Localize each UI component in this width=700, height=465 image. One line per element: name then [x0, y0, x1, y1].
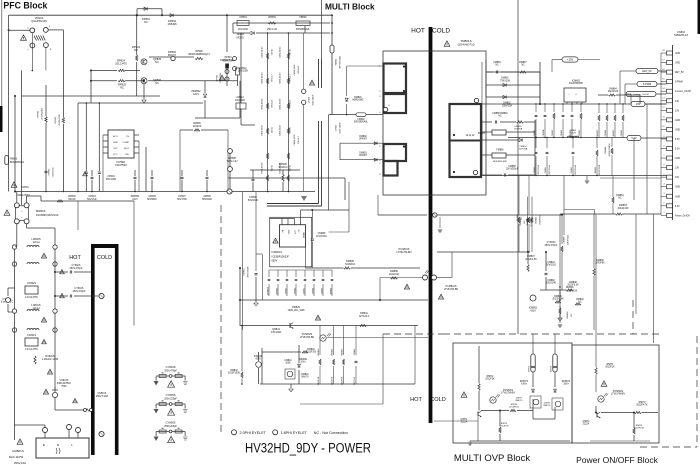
svg-text:2012U0: 2012U0 [193, 125, 202, 128]
svg-text:HER20MG: HER20MG [352, 100, 363, 102]
svg-text:50V1K: 50V1K [68, 198, 76, 201]
svg-text:CM860: CM860 [534, 129, 536, 136]
svg-text:3: 3 [663, 193, 664, 195]
svg-text:2012F1.5K: 2012F1.5K [525, 258, 537, 261]
svg-text:2012F470K: 2012F470K [59, 114, 61, 126]
svg-text:UF4007: UF4007 [359, 139, 368, 141]
svg-text:GND: GND [675, 158, 680, 160]
svg-text:T5KV20A: T5KV20A [500, 79, 510, 82]
svg-text:10V1000uF: 10V1000uF [575, 164, 577, 175]
svg-text:PCS802S: PCS802S [613, 391, 624, 393]
svg-text:6: 6 [663, 164, 664, 166]
svg-text:2012F100: 2012F100 [618, 207, 629, 210]
svg-text:2012F1.8K: 2012F1.8K [552, 299, 564, 301]
svg-text:#AL: #AL [177, 371, 180, 374]
svg-text:DM(L)/D.05: DM(L)/D.05 [262, 98, 264, 110]
svg-text:6.8Vz: 6.8Vz [521, 384, 528, 386]
svg-text:CM866: CM866 [621, 129, 623, 136]
svg-text:12: 12 [662, 107, 664, 109]
svg-text:2012F(20K): 2012F(20K) [41, 108, 43, 120]
svg-text:GND: GND [675, 129, 680, 131]
svg-text:2012FA.7K: 2012FA.7K [636, 404, 648, 407]
svg-text:RP809: RP809 [268, 16, 276, 19]
svg-text:13V: 13V [675, 177, 680, 179]
svg-text:CM852: CM852 [244, 268, 246, 276]
svg-text:RP904: RP904 [217, 74, 219, 81]
svg-text:20F2F0K: 20F2F0K [595, 263, 605, 265]
svg-text:RP902: RP902 [55, 116, 57, 123]
svg-text:15uH: 15uH [570, 133, 576, 135]
svg-text:20F2F(K)0: 20F2F(K)0 [567, 234, 569, 245]
svg-text:CP811: CP811 [309, 96, 311, 103]
svg-text:CX801S: CX801S [27, 334, 36, 337]
svg-text:ECO: ECO [113, 136, 118, 138]
svg-text:RM867: RM867 [519, 62, 527, 64]
svg-text:DM(L)/D.02: DM(L)/D.02 [262, 46, 264, 58]
svg-text:RM862: RM862 [595, 166, 597, 173]
svg-text:50V,6n8: 50V,6n8 [272, 99, 274, 107]
svg-text:0.47uF,275V: 0.47uF,275V [25, 349, 38, 351]
svg-text:LTV817M-BN: LTV817M-BN [397, 251, 412, 254]
svg-text:R5873: R5873 [639, 402, 646, 404]
svg-text:450V,100uF: 450V,100uF [312, 94, 314, 106]
svg-text:MOT: MOT [124, 148, 130, 150]
svg-text:450V,100uF: 450V,100uF [339, 122, 341, 134]
svg-text:2012F100: 2012F100 [509, 407, 520, 409]
svg-text:17: 17 [662, 59, 664, 61]
svg-text:16Vz: 16Vz [132, 198, 138, 201]
svg-text:2012F2K0: 2012F2K0 [531, 217, 533, 227]
svg-text:NC: NC [155, 81, 159, 85]
svg-text:BAV70: BAV70 [544, 404, 551, 407]
svg-text:GND: GND [675, 53, 680, 55]
svg-text:750V: 750V [61, 385, 67, 388]
svg-text:0F2KG: 0F2KG [236, 36, 244, 39]
svg-text:2012F103K: 2012F103K [228, 373, 240, 375]
svg-text:CM807: CM807 [286, 287, 288, 294]
svg-text:250V,470pF: 250V,470pF [73, 290, 86, 293]
svg-text:250V,10A: 250V,10A [14, 461, 26, 465]
svg-text:RM854: RM854 [616, 195, 624, 197]
svg-text:CM8(L)/205: CM8(L)/205 [294, 134, 296, 146]
svg-text:PCS801S: PCS801S [503, 390, 514, 392]
svg-text:DM802: DM802 [359, 136, 367, 138]
svg-text:CM845: CM845 [552, 129, 554, 136]
svg-text:50V47uF: 50V47uF [87, 198, 97, 201]
svg-text:GND: GND [288, 229, 290, 234]
svg-text:NC: NC [524, 220, 526, 224]
svg-text:COMP: COMP [122, 142, 129, 144]
svg-text:CM801S: CM801S [12, 449, 24, 453]
svg-text:CX802S: CX802S [27, 282, 36, 285]
svg-text:ZD5872: ZD5872 [562, 381, 571, 383]
svg-text:LTV817M-BN: LTV817M-BN [501, 393, 515, 395]
svg-text:50V681K: 50V681K [147, 198, 157, 201]
svg-text:50V,6n: 50V,6n [272, 48, 274, 55]
svg-text:2012F1K: 2012F1K [605, 367, 615, 369]
svg-text:COLD: COLD [97, 255, 112, 261]
svg-text:RM866: RM866 [613, 129, 615, 136]
svg-text:D10XB60,600V/10A: D10XB60,600V/10A [36, 214, 59, 217]
svg-text:50V473K: 50V473K [177, 198, 187, 201]
svg-text:CM84A: CM84A [542, 129, 545, 136]
svg-text:ZDM841: ZDM841 [299, 359, 309, 361]
svg-text:RM803: RM803 [277, 287, 279, 294]
svg-text:RM840: RM840 [567, 311, 569, 319]
svg-text:250V,220pF: 250V,220pF [164, 425, 177, 428]
svg-text:RM868: RM868 [605, 146, 607, 154]
svg-text:18Vz: 18Vz [563, 384, 569, 386]
svg-text:2012F3.3K: 2012F3.3K [566, 291, 578, 293]
svg-text:13: 13 [662, 98, 664, 100]
svg-text:2012F10K: 2012F10K [608, 91, 619, 93]
svg-text:50V/224K: 50V/224K [546, 283, 557, 285]
svg-text:1.2Mohm,1/2W: 1.2Mohm,1/2W [42, 358, 59, 361]
svg-text:10n/4u7: 10n/4u7 [298, 135, 300, 143]
svg-text:BD801S: BD801S [36, 210, 46, 213]
svg-text:CM850: CM850 [561, 129, 563, 136]
svg-text:NC: NC [521, 65, 525, 67]
svg-text:QGA/HD710: QGA/HD710 [458, 42, 475, 46]
svg-text:50V,6n: 50V,6n [272, 164, 274, 171]
svg-text:COLD: COLD [432, 28, 450, 35]
svg-text:DM803: DM803 [359, 153, 367, 155]
svg-text:N: N [57, 443, 59, 447]
svg-text:1KV,4n7: 1KV,4n7 [290, 73, 292, 82]
svg-text:VCC: VCC [113, 154, 118, 156]
svg-text:NC: NC [495, 65, 499, 67]
svg-text:50V,6n8: 50V,6n8 [298, 65, 300, 73]
svg-text:9: 9 [663, 136, 664, 138]
svg-text:5.3V: 5.3V [675, 206, 680, 208]
svg-text:E: E [43, 443, 45, 447]
svg-text:10V1000uF: 10V1000uF [538, 164, 540, 175]
svg-text:RM844: RM844 [332, 348, 334, 356]
svg-text:NC: NC [134, 48, 138, 52]
svg-text:10V,4n: 10V,4n [272, 126, 274, 133]
svg-text:CM804: CM804 [547, 262, 555, 264]
svg-text:CP802: CP802 [49, 168, 51, 175]
svg-text:MULTI Block: MULTI Block [325, 1, 375, 11]
svg-text:1.8PHI EYELET: 1.8PHI EYELET [281, 431, 308, 435]
svg-text:RP928: RP928 [195, 51, 203, 53]
svg-text:DM(L)/D.05: DM(L)/D.05 [280, 98, 282, 110]
svg-text:12mH: 12mH [33, 240, 40, 244]
svg-text:CM859: CM859 [508, 166, 516, 168]
svg-text:SMW250-18: SMW250-18 [674, 34, 689, 37]
svg-text:50V/103J: 50V/103J [546, 265, 556, 267]
svg-text:NC: NC [155, 60, 159, 64]
svg-text:D5874: D5874 [551, 365, 553, 372]
svg-text:DM861: DM861 [501, 78, 509, 80]
svg-text:BAV70: BAV70 [516, 399, 523, 402]
svg-text:18Vz: 18Vz [193, 93, 199, 96]
svg-text:CP813: CP813 [336, 124, 338, 131]
svg-text:2.0PHI EYELET: 2.0PHI EYELET [240, 431, 267, 435]
svg-text:7: 7 [663, 155, 664, 157]
svg-text:DM841: DM841 [301, 374, 309, 376]
svg-text:CP804: CP804 [239, 16, 247, 19]
svg-text:5: 5 [663, 174, 664, 176]
svg-text:10V/1000uF: 10V/1000uF [506, 169, 519, 171]
svg-text:16: 16 [662, 69, 664, 71]
svg-text:Q5872: Q5872 [583, 421, 591, 423]
svg-text:50V,6n: 50V,6n [290, 164, 292, 171]
svg-text:5.3V: 5.3V [675, 149, 680, 151]
svg-text:100V/5A: 100V/5A [519, 148, 528, 151]
svg-text:#AL: #AL [161, 399, 164, 402]
svg-text:11: 11 [663, 117, 665, 119]
svg-text:QP801: QP801 [224, 57, 232, 59]
svg-text:#AL: #AL [161, 371, 164, 374]
svg-text:INV: INV [125, 154, 129, 156]
svg-text:600V,7.2A: 600V,7.2A [223, 60, 234, 63]
svg-text:UF4007: UF4007 [359, 155, 368, 157]
svg-text:14V/102K: 14V/102K [235, 99, 246, 102]
svg-text:QGA/HD2109: QGA/HD2109 [31, 20, 47, 23]
svg-text:2012F(200K)2: 2012F(200K)2 [609, 143, 611, 157]
svg-text:CM864: CM864 [605, 129, 607, 136]
svg-text:5.3V: 5.3V [675, 139, 680, 141]
svg-text:DET_5V: DET_5V [675, 72, 684, 74]
svg-text:#AL: #AL [177, 427, 180, 430]
svg-text:50V,6n: 50V,6n [290, 48, 292, 55]
svg-text:Power_On/Off: Power_On/Off [675, 214, 690, 217]
svg-text:CP801: CP801 [21, 186, 29, 189]
svg-text:OUT: OUT [113, 148, 118, 150]
svg-text:13V: 13V [675, 168, 680, 170]
svg-text:531DF10: 531DF10 [345, 263, 356, 266]
svg-text:ZDM802: ZDM802 [268, 286, 270, 295]
svg-text:DM(L)/D.08: DM(L)/D.08 [280, 162, 282, 174]
svg-text:GND: GND [675, 63, 680, 65]
svg-text:PFC Block: PFC Block [3, 0, 47, 10]
svg-text:13V: 13V [675, 110, 680, 112]
svg-text:NC: NC [571, 313, 573, 317]
svg-text:2R5V/474K: 2R5V/474K [247, 266, 249, 278]
svg-text:FB802: FB802 [299, 16, 307, 19]
svg-text:LTV817M-BN: LTV817M-BN [611, 394, 625, 396]
svg-text:1KV/101K: 1KV/101K [238, 29, 249, 31]
svg-text:32Y6J2.0: 32Y6J2.0 [359, 315, 370, 318]
svg-text:FAN7530: FAN7530 [115, 163, 127, 167]
svg-text:CM802: CM802 [295, 287, 297, 294]
svg-text:2012J470: 2012J470 [115, 62, 127, 66]
svg-text:DM(L)/D.07: DM(L)/D.07 [280, 124, 282, 136]
svg-text:ICM801S: ICM801S [272, 251, 283, 254]
svg-text:250V,470pF: 250V,470pF [164, 369, 177, 372]
svg-text:DM(L)/D.07: DM(L)/D.07 [262, 124, 264, 136]
svg-text:1KV/101K: 1KV/101K [316, 235, 327, 238]
svg-text:10V,4n: 10V,4n [290, 126, 292, 133]
svg-text:BFS3995A0L: BFS3995A0L [354, 121, 368, 124]
svg-text:103K: 103K [285, 363, 291, 365]
svg-text:CM858 RM862: CM858 RM862 [492, 113, 508, 115]
svg-text:50V/103J: 50V/103J [52, 167, 54, 176]
svg-text:4: 4 [663, 184, 664, 186]
svg-text:RM829: RM829 [554, 296, 562, 298]
svg-text:HV32HD_9DY - POWER: HV32HD_9DY - POWER [245, 441, 371, 456]
svg-text:RM840: RM840 [307, 349, 315, 351]
svg-text:BFS3995A0L: BFS3995A0L [296, 28, 310, 31]
svg-text:CM8(L)/202: CM8(L)/202 [294, 64, 296, 76]
svg-text:RM840: RM840 [576, 299, 584, 301]
svg-text:CM805: CM805 [322, 287, 324, 294]
svg-text:NC: NC [618, 198, 622, 200]
svg-text:DAC-11PW: DAC-11PW [9, 455, 24, 459]
svg-text:250V,470pF: 250V,470pF [545, 244, 558, 247]
svg-text:0.88uF,450V: 0.88uF,450V [16, 194, 30, 197]
svg-text:RM843: RM843 [318, 348, 320, 356]
svg-text:RM838: RM838 [569, 282, 577, 284]
svg-text:18: 18 [662, 50, 664, 52]
svg-text:ZD5871: ZD5871 [520, 381, 529, 383]
svg-text:2012F2K0: 2012F2K0 [539, 214, 541, 224]
svg-text:50V222K: 50V222K [202, 198, 212, 201]
svg-text:HOT: HOT [411, 28, 425, 35]
svg-text:W6201209B06GQLT: W6201209B06GQLT [188, 54, 210, 56]
svg-text:10: 10 [662, 126, 664, 128]
svg-text:RM845: RM845 [342, 348, 344, 356]
svg-text:50V104K: 50V104K [248, 199, 259, 202]
svg-text:CM862: CM862 [534, 166, 536, 173]
svg-text:15: 15 [662, 78, 664, 80]
svg-text:BAV70: BAV70 [302, 376, 310, 379]
svg-text:RM804: RM804 [536, 216, 538, 224]
svg-text:SWG 12J: SWG 12J [227, 160, 238, 163]
svg-text:RM865: RM865 [597, 129, 599, 136]
svg-text:50V,6n8: 50V,6n8 [290, 99, 292, 107]
svg-text:CM804: CM804 [313, 287, 315, 294]
svg-text:BFS3995-R2F: BFS3995-R2F [493, 161, 508, 163]
svg-text:+13V: +13V [567, 58, 574, 62]
svg-text:14: 14 [662, 88, 664, 90]
svg-text:CM863: CM863 [571, 166, 573, 173]
svg-text:Power ON/OFF Block: Power ON/OFF Block [576, 455, 658, 465]
svg-text:650V: 650V [272, 260, 278, 263]
svg-text:NC: NC [120, 86, 124, 90]
svg-text:2012(U)68: 2012(U)68 [220, 72, 222, 83]
svg-text:5-PWM: 5-PWM [643, 83, 651, 86]
svg-text:VCC: VCC [295, 229, 297, 234]
svg-text:R5871: R5871 [607, 364, 614, 366]
svg-text:CM846: CM846 [579, 129, 581, 136]
svg-text:RM809: RM809 [566, 287, 574, 289]
svg-text:DM(L)/D.02: DM(L)/D.02 [280, 46, 282, 58]
svg-text:250V,470pF: 250V,470pF [70, 267, 83, 270]
svg-text:CM862: CM862 [547, 280, 555, 282]
svg-text:250V,220pF: 250V,220pF [164, 397, 177, 400]
svg-text:DM(L)/D.03: DM(L)/D.03 [262, 72, 264, 84]
svg-text:Inverter_On/Off: Inverter_On/Off [675, 90, 691, 93]
svg-text:10Vz: 10Vz [300, 362, 306, 364]
svg-text:2012F1K: 2012F1K [500, 426, 509, 428]
svg-text:DM(L)/D.03: DM(L)/D.03 [280, 72, 282, 84]
svg-text:DM801: DM801 [354, 97, 362, 99]
svg-text:RM864: RM864 [609, 89, 617, 91]
svg-text:5-PWM: 5-PWM [675, 82, 683, 84]
svg-text:CM808: CM808 [564, 236, 566, 244]
svg-text:HOT: HOT [69, 255, 81, 261]
svg-text:1: 1 [663, 212, 664, 214]
svg-text:10,11,12: 10,11,12 [466, 135, 475, 137]
svg-text:BFS3995A0L: BFS3995A0L [10, 161, 25, 164]
svg-text:2012F10K: 2012F10K [634, 428, 645, 430]
svg-text:1KV,4n7: 1KV,4n7 [272, 73, 274, 82]
svg-text:#AL: #AL [177, 399, 180, 402]
svg-text:2012(U0): 2012(U0) [389, 273, 399, 276]
svg-text:Inverter_On/Off: Inverter_On/Off [633, 93, 648, 96]
svg-text:2: 2 [663, 203, 664, 205]
svg-text:R5872: R5872 [487, 376, 494, 378]
svg-text:NC : Not Connection: NC : Not Connection [314, 431, 348, 435]
svg-text:10V1000uF: 10V1000uF [549, 164, 551, 175]
svg-text:FM802: FM802 [357, 119, 365, 121]
svg-text:DRAIN: DRAIN [302, 231, 305, 238]
svg-text:ICE3BR1065JF: ICE3BR1065JF [272, 255, 290, 258]
svg-text:CM801: CM801 [304, 287, 306, 294]
svg-text:#AL: #AL [161, 427, 164, 430]
svg-text:K3C1008: K3C1008 [271, 331, 282, 334]
svg-text:D5873: D5873 [529, 365, 531, 372]
svg-text:MULTI OVP Block: MULTI OVP Block [454, 453, 530, 464]
svg-text:1N5406: 1N5406 [167, 22, 177, 26]
svg-text:KIA378R05PI: KIA378R05PI [569, 82, 583, 85]
svg-text:150V/20A: 150V/20A [502, 104, 513, 107]
svg-text:BFS3995A0L: BFS3995A0L [338, 55, 341, 68]
svg-text:GND: GND [675, 196, 680, 198]
svg-text:CM841: CM841 [354, 348, 356, 356]
svg-text:DM(L)/D.08: DM(L)/D.08 [262, 162, 264, 174]
svg-text:CS: CS [126, 136, 130, 138]
svg-text:25V/100K: 25V/100K [106, 178, 117, 181]
svg-text:250V,T4AH: 250V,T4AH [96, 395, 108, 398]
svg-text:1005_2KJ_W06: 1005_2KJ_W06 [287, 309, 305, 312]
svg-text:DET_5V: DET_5V [642, 70, 652, 73]
svg-text:2222A: 2222A [583, 423, 590, 426]
svg-text:FM866: FM866 [496, 150, 504, 152]
svg-text:RM804: RM804 [331, 287, 333, 294]
svg-text:CM863: CM863 [493, 62, 501, 64]
svg-text:FM801: FM801 [336, 58, 338, 65]
svg-text:CM841: CM841 [284, 360, 292, 362]
svg-text:GND: GND [675, 187, 680, 189]
svg-text:COLD: COLD [430, 397, 446, 403]
svg-text:RP961: RP961 [38, 110, 40, 117]
svg-text:CM841: CM841 [545, 166, 547, 173]
svg-text:8: 8 [663, 145, 664, 147]
svg-text:ICM862: ICM862 [572, 81, 581, 83]
svg-text:13V: 13V [675, 101, 680, 103]
svg-text:GND: GND [675, 120, 680, 122]
svg-text:GND: GND [113, 142, 118, 144]
svg-text:HOT: HOT [410, 397, 422, 403]
svg-text:250 GJ-R: 250 GJ-R [267, 29, 277, 31]
svg-text:2012F390K: 2012F390K [599, 164, 601, 175]
svg-text:NC: NC [498, 116, 502, 118]
svg-text:RM842: RM842 [230, 370, 238, 372]
svg-text:NC: NC [144, 20, 148, 24]
svg-text:RM836: RM836 [596, 260, 604, 262]
svg-text:LTV817M-BN: LTV817M-BN [300, 336, 315, 339]
svg-text:2012F2K: 2012F2K [485, 379, 495, 381]
svg-text:LTV817M-BN: LTV817M-BN [444, 288, 459, 291]
svg-text:431A: 431A [530, 309, 536, 312]
svg-text:0.47uF,275V: 0.47uF,275V [25, 297, 38, 299]
